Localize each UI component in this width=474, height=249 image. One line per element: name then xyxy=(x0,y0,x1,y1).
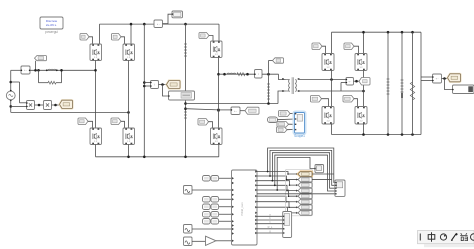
wire xyxy=(257,190,298,196)
goto tag d (highlighted) xyxy=(298,172,312,177)
wire xyxy=(421,76,433,78)
wire xyxy=(219,220,232,222)
wire xyxy=(354,46,359,53)
wire xyxy=(290,113,295,115)
wire xyxy=(121,121,125,127)
product block xyxy=(27,101,35,110)
node xyxy=(401,133,404,136)
wire xyxy=(61,70,63,82)
wire xyxy=(11,111,129,113)
node xyxy=(267,102,270,105)
from tag fB xyxy=(268,117,278,123)
wire xyxy=(218,58,220,128)
port xyxy=(232,194,234,196)
goto tag Iin (orange) xyxy=(167,81,181,89)
node xyxy=(184,107,187,110)
port xyxy=(296,206,298,208)
wire xyxy=(287,129,295,131)
svg-text:+ -: + - xyxy=(348,80,351,83)
wire xyxy=(278,91,286,104)
node xyxy=(330,78,333,81)
goto tag Vab xyxy=(245,107,259,114)
goto tag t7 xyxy=(298,205,312,210)
wire xyxy=(257,181,298,185)
wire xyxy=(35,61,37,71)
goto tag Vo xyxy=(273,58,284,63)
goto tag t3 xyxy=(298,183,312,188)
wire xyxy=(257,172,298,175)
wire xyxy=(99,24,101,44)
wire loop1 xyxy=(270,150,335,185)
port xyxy=(296,212,298,214)
node xyxy=(161,83,164,86)
mosfet Q3 xyxy=(90,128,102,145)
node xyxy=(38,104,41,107)
port xyxy=(255,175,257,177)
node xyxy=(184,102,187,105)
wire bottom rail xyxy=(96,156,219,158)
mux block xyxy=(283,212,292,238)
node xyxy=(127,111,130,114)
wire xyxy=(216,240,232,242)
wire xyxy=(268,61,270,75)
constant block 4 xyxy=(203,212,211,218)
wire loop scope xyxy=(277,157,314,190)
from tag g3 xyxy=(78,118,88,125)
svg-text:powergui: powergui xyxy=(45,30,58,34)
node xyxy=(267,171,269,173)
wire xyxy=(363,71,365,107)
wire bottom rail xyxy=(332,134,422,136)
wire xyxy=(186,103,279,105)
from tag g5 xyxy=(199,33,209,39)
resistor R branch xyxy=(48,81,56,84)
port xyxy=(232,177,234,179)
port xyxy=(255,201,257,203)
port xyxy=(232,182,234,184)
scope S4 xyxy=(335,180,345,196)
capacitor C1 marks xyxy=(184,43,187,45)
node xyxy=(276,189,278,191)
current measurement I1 xyxy=(151,81,159,89)
from tag fC xyxy=(277,122,289,128)
wire xyxy=(192,240,206,242)
wire xyxy=(257,232,283,234)
mosfet Q9 xyxy=(322,107,334,125)
wire xyxy=(262,73,279,75)
port xyxy=(296,178,298,180)
inductor L2 xyxy=(227,73,236,74)
goto tag t4 xyxy=(298,188,312,193)
node xyxy=(37,69,40,72)
AC source Vin xyxy=(6,91,15,100)
from tag fD xyxy=(277,127,288,133)
wire xyxy=(121,37,125,44)
wire xyxy=(144,82,150,84)
goto tag t8 xyxy=(298,210,312,215)
wire xyxy=(130,24,132,44)
goto tag t2 xyxy=(298,177,312,182)
node xyxy=(272,180,274,182)
wire xyxy=(192,189,232,191)
wire xyxy=(209,122,213,128)
display D1 xyxy=(453,85,474,94)
svg-text:+ -: + - xyxy=(234,110,237,113)
capacitor C2 marks xyxy=(184,111,187,113)
wire xyxy=(192,228,232,230)
mosfet Q8 xyxy=(355,54,367,71)
node xyxy=(362,90,365,93)
wire DC-link vertical xyxy=(185,24,187,157)
wire xyxy=(38,70,40,82)
subsystem PWM xyxy=(232,170,258,245)
svg-text:Scope1: Scope1 xyxy=(294,134,305,138)
node xyxy=(269,175,271,177)
node xyxy=(60,69,63,72)
port xyxy=(255,223,257,225)
wire xyxy=(279,74,286,79)
goto tag Vout (orange) xyxy=(448,74,461,82)
wire xyxy=(257,223,283,225)
wire xyxy=(56,82,62,84)
node xyxy=(362,133,365,136)
gain triangle xyxy=(206,236,217,245)
port xyxy=(232,206,234,208)
transformer T1 xyxy=(288,79,291,92)
wire xyxy=(10,100,12,112)
wire xyxy=(331,71,333,107)
wire xyxy=(340,83,342,92)
node xyxy=(401,31,404,34)
node xyxy=(387,133,390,136)
wire xyxy=(10,70,12,91)
from tag fA xyxy=(279,111,291,117)
port xyxy=(296,190,298,192)
node xyxy=(443,77,446,80)
wire xyxy=(19,82,21,103)
node xyxy=(267,73,270,76)
wire xyxy=(257,207,298,213)
port xyxy=(255,195,257,197)
node xyxy=(286,179,288,181)
wire xyxy=(88,121,93,127)
port xyxy=(296,201,298,203)
node xyxy=(130,23,133,26)
wire xyxy=(257,196,298,202)
port xyxy=(232,228,234,230)
wire xyxy=(354,99,358,107)
wire xyxy=(219,206,232,208)
wire xyxy=(300,90,364,92)
wire loop2 xyxy=(272,153,334,189)
constant block 2 xyxy=(203,197,211,203)
area box xyxy=(285,169,312,216)
port xyxy=(255,189,257,191)
wire xyxy=(257,228,283,230)
wire xyxy=(420,32,422,134)
from tag g4 xyxy=(111,118,121,125)
mosfet Q4 xyxy=(123,128,135,145)
port xyxy=(232,232,234,234)
from tag g7 xyxy=(312,43,322,50)
wire xyxy=(144,85,150,87)
wire xyxy=(52,104,60,106)
port xyxy=(232,213,234,215)
wire xyxy=(278,118,295,121)
wire xyxy=(163,14,172,24)
wire xyxy=(11,81,20,83)
wire xyxy=(289,123,295,125)
sine wave source 1 xyxy=(184,186,193,195)
node xyxy=(223,73,226,76)
goto tag t5 xyxy=(298,194,312,199)
goto tag Pin (orange) xyxy=(60,100,73,108)
port xyxy=(255,180,257,182)
wire xyxy=(219,198,232,200)
wire xyxy=(11,69,21,71)
wire tag1 out xyxy=(312,173,334,175)
goto tag V3 xyxy=(359,78,370,86)
RLC branch marks xyxy=(267,83,270,85)
wire tag2 out xyxy=(312,179,332,181)
port xyxy=(255,219,257,221)
wire xyxy=(95,145,97,157)
inductor L branch xyxy=(48,69,56,70)
wire xyxy=(39,82,49,84)
wire xyxy=(209,36,213,41)
wire xyxy=(220,109,231,111)
node xyxy=(143,156,146,159)
wire xyxy=(300,79,347,81)
load branch 2 xyxy=(401,32,403,134)
node xyxy=(362,31,365,34)
node xyxy=(288,195,290,197)
display block xyxy=(169,91,195,100)
wire xyxy=(363,124,365,135)
node xyxy=(54,104,57,107)
wire xyxy=(89,37,93,44)
node xyxy=(143,85,146,88)
from tag g10 xyxy=(343,96,354,103)
junction square xyxy=(217,109,220,112)
wire xyxy=(445,79,453,90)
port xyxy=(232,240,234,242)
voltage measurement V3 xyxy=(346,78,354,86)
mosfet Q7 xyxy=(322,54,334,71)
wire xyxy=(35,104,44,106)
scope S1 xyxy=(172,11,183,18)
from tag g9 xyxy=(311,96,322,103)
constant block 5 xyxy=(203,219,211,225)
svg-text:PWM_Gen: PWM_Gen xyxy=(240,202,244,216)
wire loop3 xyxy=(275,155,335,191)
wire xyxy=(30,69,96,71)
mosfet Q10 xyxy=(355,107,367,125)
wire xyxy=(257,215,283,217)
port xyxy=(255,228,257,230)
port xyxy=(255,184,257,186)
node xyxy=(411,133,414,136)
node xyxy=(184,156,187,159)
node xyxy=(246,73,249,76)
node xyxy=(94,69,97,72)
from tag g1 xyxy=(80,34,89,41)
node xyxy=(34,69,37,72)
from tag g6 xyxy=(198,119,209,126)
wire xyxy=(354,80,360,82)
node xyxy=(286,190,288,192)
voltage measurement V1 xyxy=(21,66,30,74)
node xyxy=(289,184,291,186)
port xyxy=(255,212,257,214)
gain block xyxy=(44,101,52,110)
constant block 3 xyxy=(203,204,211,210)
wire xyxy=(218,24,220,41)
node xyxy=(287,173,289,175)
node xyxy=(9,105,12,108)
wire chain xyxy=(219,73,255,75)
wire xyxy=(269,60,273,62)
node xyxy=(143,23,146,26)
sine wave source 2 xyxy=(184,225,193,234)
scope S3 xyxy=(315,165,324,173)
wire xyxy=(421,80,433,82)
wire xyxy=(257,176,298,180)
port xyxy=(296,184,298,186)
mosfet Q6 xyxy=(211,128,223,145)
wire xyxy=(159,84,167,86)
wire xyxy=(240,110,245,112)
wire xyxy=(163,85,169,97)
node xyxy=(355,80,358,83)
resistor R2 xyxy=(237,73,245,76)
load branch 3 xyxy=(412,32,414,134)
svg-text:2e-06 s.: 2e-06 s. xyxy=(46,23,57,27)
node xyxy=(274,184,276,186)
constant block 1 xyxy=(203,176,211,182)
port xyxy=(232,220,234,222)
node xyxy=(285,201,287,203)
powergui block xyxy=(40,17,63,29)
wire leg2 mid xyxy=(128,61,130,129)
mosfet Q5 xyxy=(211,41,223,58)
wire xyxy=(257,219,283,221)
port xyxy=(255,215,257,217)
node xyxy=(411,31,414,34)
voltage measurement Vab xyxy=(231,107,240,115)
node xyxy=(287,212,289,214)
wire xyxy=(442,78,448,80)
goto tag t6 xyxy=(298,199,312,204)
mosfet Q1 xyxy=(90,44,102,61)
current measurement I2 xyxy=(255,70,263,79)
from tag g8 xyxy=(344,43,354,50)
wire leg1 mid xyxy=(95,61,97,129)
wire top bus xyxy=(100,23,220,25)
wire xyxy=(186,109,219,110)
wire xyxy=(341,82,346,84)
node xyxy=(9,81,12,84)
node xyxy=(217,73,220,76)
wire xyxy=(257,193,335,195)
port xyxy=(296,173,298,175)
wire long vertical xyxy=(143,24,145,157)
port xyxy=(296,195,298,197)
voltage measurement V2 xyxy=(154,20,163,28)
scope S2 (selected blue) xyxy=(294,112,306,134)
svg-text:+ -: + - xyxy=(157,23,160,26)
wire xyxy=(219,177,232,179)
wire top rail xyxy=(332,31,422,33)
mosfet Q2 xyxy=(123,44,135,61)
wire xyxy=(257,202,298,208)
wire xyxy=(257,185,298,190)
wire xyxy=(322,46,326,53)
node xyxy=(143,81,146,84)
wire xyxy=(11,105,27,107)
wire xyxy=(322,99,329,107)
wire xyxy=(363,32,365,53)
svg-text:R_L: R_L xyxy=(268,225,273,229)
load branch 1 xyxy=(387,32,389,134)
port xyxy=(232,198,234,200)
node xyxy=(184,23,187,26)
wire loop0 xyxy=(268,148,335,183)
node xyxy=(127,156,130,159)
voltage measurement V4 xyxy=(433,74,442,83)
wire xyxy=(20,102,27,104)
wire xyxy=(128,145,130,157)
svg-text:+ -: + - xyxy=(24,69,27,72)
wire xyxy=(218,145,220,157)
port xyxy=(255,206,257,208)
port xyxy=(232,189,234,191)
svg-text:+ -: + - xyxy=(436,78,439,81)
from tag g2 xyxy=(112,34,122,41)
port xyxy=(255,170,257,172)
node xyxy=(387,31,390,34)
wire xyxy=(219,213,232,215)
wire vertical branch xyxy=(268,74,270,103)
port xyxy=(232,224,234,226)
IME toolbar xyxy=(418,231,474,244)
wire xyxy=(331,32,333,53)
port xyxy=(255,232,257,234)
wire xyxy=(331,124,333,135)
node xyxy=(288,207,290,209)
sine wave source 3 xyxy=(184,237,193,246)
goto tag Vin xyxy=(35,56,47,61)
